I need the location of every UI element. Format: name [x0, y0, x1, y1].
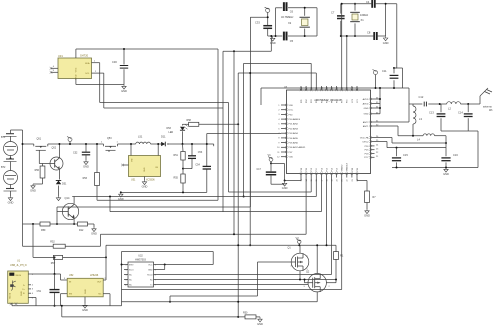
wire h301 — [122, 301, 318, 303]
wire U52 out — [103, 279, 106, 281]
wire bottom gnd rail — [12, 305, 122, 307]
antenna W1 — [479, 96, 481, 104]
wire U32 tx line to Q2 gate — [158, 284, 309, 286]
svg-text:R12: R12 — [79, 229, 84, 232]
svg-text:VDD: VDD — [289, 157, 294, 159]
svg-text:GND: GND — [270, 41, 276, 45]
ground 16M — [383, 36, 387, 41]
svg-text:45: 45 — [316, 87, 318, 89]
ground under C30 — [122, 85, 126, 90]
svg-text:VCC: VCC — [76, 67, 78, 72]
wire Q2 gate tap — [305, 282, 309, 284]
svg-text:HW57003: HW57003 — [135, 258, 146, 261]
mcu U3 nRF51822_QFAA48 — [287, 90, 371, 174]
svg-text:U52: U52 — [69, 274, 74, 277]
svg-text:R59: R59 — [41, 229, 46, 232]
svg-text:X1: X1 — [361, 18, 365, 22]
svg-text:C16: C16 — [453, 153, 458, 157]
svg-text:SWDCLK: SWDCLK — [347, 162, 349, 171]
svg-text:BT2: BT2 — [1, 166, 6, 169]
wire mesh h51 — [223, 50, 271, 52]
svg-text:LED: LED — [169, 131, 174, 134]
wire R52 riser — [100, 234, 102, 246]
wire mesh h234 — [101, 233, 307, 235]
svg-text:GND: GND — [91, 232, 97, 236]
wire U31 GND bottom — [75, 79, 77, 85]
svg-text:R1: R1 — [340, 254, 344, 258]
svg-text:GND: GND — [282, 186, 288, 190]
wire mesh h196 — [72, 196, 316, 198]
wire x33 — [32, 224, 34, 257]
wire mesh v243 — [243, 63, 245, 196]
svg-text:DCC: DCC — [289, 110, 294, 112]
svg-text:16MHz: 16MHz — [360, 13, 369, 17]
svg-text:R56: R56 — [35, 169, 40, 172]
wire VDD top — [75, 49, 77, 58]
svg-text:GND: GND — [144, 167, 146, 172]
svg-text:VIN: VIN — [132, 158, 134, 162]
svg-text:U32: U32 — [138, 255, 143, 258]
wire mesh v238 — [237, 73, 239, 317]
wire ANT2 — [375, 121, 410, 123]
wire battery plus — [10, 130, 12, 134]
svg-text:P04.AIN5: P04.AIN5 — [289, 137, 299, 140]
svg-text:Q51: Q51 — [37, 138, 42, 141]
svg-text:SCnt: SCnt — [129, 268, 134, 271]
ground R56 — [31, 184, 35, 189]
wire DEC2 C15 line — [375, 141, 388, 143]
left pins U3 — [281, 104, 287, 106]
svg-text:Rx: Rx — [150, 279, 152, 281]
bottom pins U3 — [300, 174, 302, 178]
svg-text:R58: R58 — [187, 119, 192, 122]
svg-text:39: 39 — [347, 87, 349, 89]
svg-text:P03.AIN4: P03.AIN4 — [289, 132, 299, 135]
wire VDD rail above IC — [261, 87, 409, 89]
wire pin bottoms — [300, 178, 302, 181]
svg-text:Q53: Q53 — [107, 137, 112, 140]
svg-text:P02.AIN3: P02.AIN3 — [289, 127, 299, 130]
ground R50 — [258, 317, 262, 322]
svg-text:C54: C54 — [195, 163, 200, 166]
wire Q1 source — [299, 271, 301, 280]
wire U51 left pin — [123, 164, 129, 166]
svg-text:Shield: Shield — [10, 292, 12, 299]
svg-text:R51: R51 — [174, 154, 179, 157]
svg-text:SDA: SDA — [85, 62, 90, 65]
wire mesh v223 — [222, 51, 224, 211]
wire 16M loop — [341, 3, 372, 5]
top pins U3 — [300, 86, 302, 90]
ground C52 — [84, 160, 88, 165]
svg-text:VDD: VDD — [289, 105, 294, 107]
svg-text:GND: GND — [148, 269, 153, 271]
ground U51 — [144, 177, 146, 181]
svg-text:OUT: OUT — [97, 282, 102, 284]
wire U32 rx line — [158, 279, 337, 281]
svg-text:GND: GND — [443, 172, 449, 176]
net flag VDD rail — [374, 71, 378, 75]
svg-text:GND: GND — [364, 114, 369, 116]
wire lower gnd rail — [61, 306, 63, 317]
wire lower gnd node — [121, 191, 207, 193]
wire r53 bottom — [97, 199, 218, 201]
wire battery minus — [10, 185, 12, 189]
svg-text:GND: GND — [364, 214, 370, 218]
svg-text:GND: GND — [82, 308, 88, 312]
wire mesh h192 — [229, 191, 312, 193]
wire Q2 source — [316, 292, 318, 302]
svg-text:P06.AIN7.AREF1: P06.AIN7.AREF1 — [289, 146, 307, 149]
wire C17 bottom — [271, 183, 284, 185]
svg-text:GND: GND — [30, 189, 36, 193]
wire power h242 — [106, 244, 336, 246]
svg-text:C12: C12 — [419, 95, 424, 99]
ground IC bottom — [284, 180, 286, 182]
wire VBUS — [31, 273, 61, 275]
ground R7 — [365, 209, 369, 214]
wire C13 C14 gnd — [441, 130, 478, 132]
svg-text:D53: D53 — [167, 127, 172, 130]
wire mesh v229 — [228, 103, 230, 193]
ground 32k — [271, 37, 275, 42]
right pins U3 — [371, 98, 375, 100]
svg-text:GND: GND — [8, 201, 14, 205]
svg-text:44: 44 — [321, 87, 323, 89]
svg-text:C13: C13 — [429, 111, 434, 115]
svg-text:Tx: Tx — [150, 284, 152, 286]
svg-text:C5: C5 — [290, 39, 294, 43]
wire V3 to gnd riser — [271, 162, 284, 164]
net flag X32k — [266, 8, 270, 12]
svg-text:46: 46 — [311, 87, 313, 89]
wire C54 node to mcu — [207, 133, 281, 135]
svg-text:C4: C4 — [366, 0, 370, 4]
svg-text:D-: D- — [23, 285, 25, 287]
svg-text:20: 20 — [337, 179, 339, 181]
wire Q2 pin2 — [326, 282, 336, 284]
svg-text:/RST: /RST — [129, 264, 134, 266]
svg-text:Reset: Reset — [147, 273, 153, 276]
wire mesh v218 — [217, 49, 219, 200]
wire 32k gnd mesh riser — [270, 36, 272, 51]
svg-text:Q52: Q52 — [52, 147, 57, 150]
wire mesh v250 — [249, 73, 251, 245]
svg-text:48: 48 — [301, 87, 303, 89]
svg-text:AVDD: AVDD — [363, 98, 369, 101]
svg-text:U51: U51 — [131, 179, 136, 182]
svg-text:NC: NC — [98, 294, 102, 296]
svg-text:C53: C53 — [198, 151, 203, 154]
svg-text:EN: EN — [69, 294, 72, 296]
svg-text:C8: C8 — [367, 31, 371, 35]
wire U32 vcc loop — [158, 264, 214, 266]
svg-text:43: 43 — [326, 87, 328, 89]
svg-text:C17: C17 — [257, 168, 262, 171]
svg-text:VCC: VCC — [148, 264, 153, 266]
svg-text:38: 38 — [352, 87, 354, 89]
svg-text:C30: C30 — [112, 60, 117, 64]
ground battery — [8, 196, 12, 201]
svg-text:SHT20: SHT20 — [80, 54, 89, 58]
svg-text:47: 47 — [306, 87, 308, 89]
ground R12 — [92, 227, 96, 232]
wire mesh h207 — [57, 206, 250, 208]
svg-text:SWDIO: SWDIO — [342, 164, 344, 171]
svg-text:C33: C33 — [255, 21, 260, 25]
wire U32 gnd pin — [158, 269, 165, 271]
regulator U51 XC9306 — [129, 156, 161, 177]
svg-text:P00.AREF0: P00.AREF0 — [289, 118, 301, 121]
svg-text:P05.AIN6: P05.AIN6 — [289, 142, 299, 145]
wire USB gnd pin — [31, 297, 36, 299]
svg-text:32.768kHz: 32.768kHz — [281, 15, 294, 19]
wire Q14 base — [57, 211, 62, 213]
svg-text:41: 41 — [337, 87, 339, 89]
svg-text:R57: R57 — [51, 262, 56, 265]
wire M2 drain riser — [316, 245, 318, 273]
wire fb node — [183, 168, 192, 170]
wire mesh h63 — [244, 62, 312, 64]
wire U32 reset line — [158, 274, 332, 276]
wire VDD_PA — [375, 137, 393, 139]
capacitor C8 — [373, 32, 375, 40]
capacitor C5 — [283, 32, 285, 41]
svg-text:LP6226: LP6226 — [90, 274, 99, 277]
svg-text:VDD_PA: VDD_PA — [360, 136, 369, 139]
svg-text:42: 42 — [331, 87, 333, 89]
sensor U31 SHT20 — [58, 58, 92, 79]
wire h296 — [170, 295, 258, 297]
capacitor C6 — [283, 2, 285, 11]
svg-text:VBUS: VBUS — [15, 275, 21, 277]
svg-text:ANT2: ANT2 — [363, 121, 369, 124]
wire U52 nc — [103, 293, 110, 295]
svg-text:R50: R50 — [243, 312, 248, 315]
svg-text:L51: L51 — [138, 135, 143, 139]
wire Q1 gate — [258, 261, 292, 263]
svg-text:R52: R52 — [50, 241, 55, 244]
svg-text:R53: R53 — [83, 177, 88, 180]
wire Q51 gate — [38, 156, 40, 164]
wire swd R7 — [356, 178, 358, 181]
wire Q1 drain — [299, 245, 301, 253]
wire Q14 collector — [73, 197, 75, 204]
svg-text:C15: C15 — [403, 153, 408, 157]
wire crystal risers — [341, 4, 343, 86]
wire main rail — [23, 143, 34, 145]
ground rail RF — [392, 167, 478, 169]
wire mesh h211 — [110, 211, 321, 213]
svg-text:22: 22 — [347, 179, 349, 181]
wire top line down right — [396, 4, 398, 68]
wire 32k loop — [268, 35, 283, 37]
svg-text:GND: GND — [142, 185, 148, 189]
svg-text:GND: GND — [257, 322, 263, 326]
svg-text:X2: X2 — [288, 21, 292, 25]
svg-text:ANT1: ANT1 — [363, 125, 369, 128]
svg-text:XC9306: XC9306 — [146, 179, 155, 182]
wire AVDD pins to rail — [375, 98, 381, 100]
wire long net — [122, 289, 342, 291]
svg-text:GND: GND — [383, 41, 389, 45]
svg-text:D51: D51 — [62, 183, 67, 186]
ground U52 — [84, 297, 86, 304]
capacitor C4 — [371, 0, 373, 8]
ground lower node — [119, 192, 123, 197]
svg-text:R55: R55 — [174, 177, 179, 180]
wire battery series — [10, 156, 12, 159]
wire Q14 emitter — [73, 220, 75, 224]
ground RF — [444, 168, 448, 173]
svg-text:C7: C7 — [331, 11, 335, 15]
svg-text:USB_JL_PH_N: USB_JL_PH_N — [10, 264, 27, 267]
svg-text:Q14: Q14 — [65, 196, 70, 200]
wire 32k net down — [250, 16, 267, 18]
wire 32k top to gnd riser — [275, 8, 277, 36]
svg-text:GND: GND — [83, 165, 89, 169]
svg-text:GND: GND — [85, 289, 87, 294]
wire U52 en — [61, 293, 68, 295]
svg-text:C51: C51 — [37, 290, 42, 293]
svg-text:40: 40 — [342, 87, 344, 89]
svg-text:C14: C14 — [458, 111, 463, 115]
svg-text:GND: GND — [364, 108, 369, 110]
svg-text:P01.AIN2: P01.AIN2 — [289, 123, 299, 126]
wire 16M gnd riser — [385, 4, 387, 36]
wire mesh v240 — [233, 51, 235, 234]
svg-text:AVDD: AVDD — [363, 102, 369, 105]
wire ANT1 — [375, 125, 399, 127]
svg-text:C11: C11 — [382, 69, 387, 73]
wire U51 top pins — [130, 144, 132, 156]
svg-text:U31: U31 — [58, 54, 63, 58]
svg-text:DEC2: DEC2 — [363, 141, 370, 143]
wire AVDD bypass — [394, 67, 403, 69]
svg-text:GND: GND — [121, 89, 127, 93]
svg-text:37: 37 — [357, 87, 359, 89]
no-connect pins U31 — [51, 67, 58, 69]
svg-text:C52: C52 — [73, 152, 78, 155]
svg-text:23: 23 — [352, 179, 354, 181]
svg-text:D11: D11 — [161, 135, 166, 139]
svg-text:C6: C6 — [290, 10, 294, 14]
wire mesh h73 — [238, 72, 316, 74]
net flag battery rail — [68, 138, 72, 142]
